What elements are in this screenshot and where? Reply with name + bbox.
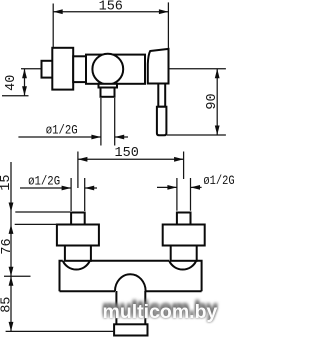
svg-text:ø1/2G: ø1/2G [28, 174, 60, 189]
svg-text:85: 85 [0, 297, 15, 313]
svg-text:15: 15 [0, 174, 14, 190]
svg-text:90: 90 [205, 93, 220, 109]
svg-text:ø1/2G: ø1/2G [203, 173, 234, 188]
svg-text:40: 40 [4, 75, 19, 91]
svg-text:ø1/2G: ø1/2G [46, 123, 78, 138]
svg-text:156: 156 [99, 0, 123, 14]
svg-text:76: 76 [0, 238, 15, 254]
svg-text:150: 150 [115, 146, 139, 161]
